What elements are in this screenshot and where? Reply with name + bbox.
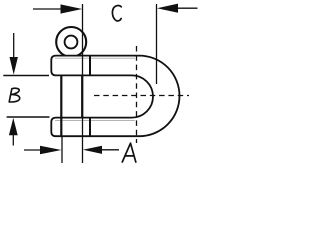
dim C right arrow — [177, 7, 198, 9]
B top extension line — [3, 75, 49, 77]
pin eye inner circle — [65, 36, 78, 49]
horizontal centerline (dashed) — [94, 95, 189, 97]
B bottom extension line — [7, 116, 50, 118]
pin eye outer circle — [56, 27, 86, 57]
band rolled edge in top bar — [89, 56, 91, 76]
vertical centerline (dashed) — [136, 46, 138, 143]
label C — [112, 6, 121, 21]
dim C left arrow — [33, 8, 61, 10]
faint fold line bottom bar — [55, 119, 135, 121]
band rolled edge in bottom bar — [89, 118, 91, 137]
extension line C-left / pin axis (long thin vertical) — [82, 4, 84, 163]
pin shank right edge — [81, 75, 83, 117]
dim A left arrow — [24, 149, 41, 151]
label B — [9, 88, 20, 102]
label A — [122, 143, 136, 162]
extension line C-right — [156, 4, 158, 84]
pin shank left edge — [60, 75, 62, 136]
dim B bottom arrow — [9, 118, 18, 135]
shackle bow outline — [51, 56, 179, 137]
faint fold line top bar — [55, 57, 135, 59]
dim B top arrow — [13, 33, 15, 58]
dim A right arrow — [83, 146, 102, 154]
extension line A-left below bar — [61, 136, 63, 163]
